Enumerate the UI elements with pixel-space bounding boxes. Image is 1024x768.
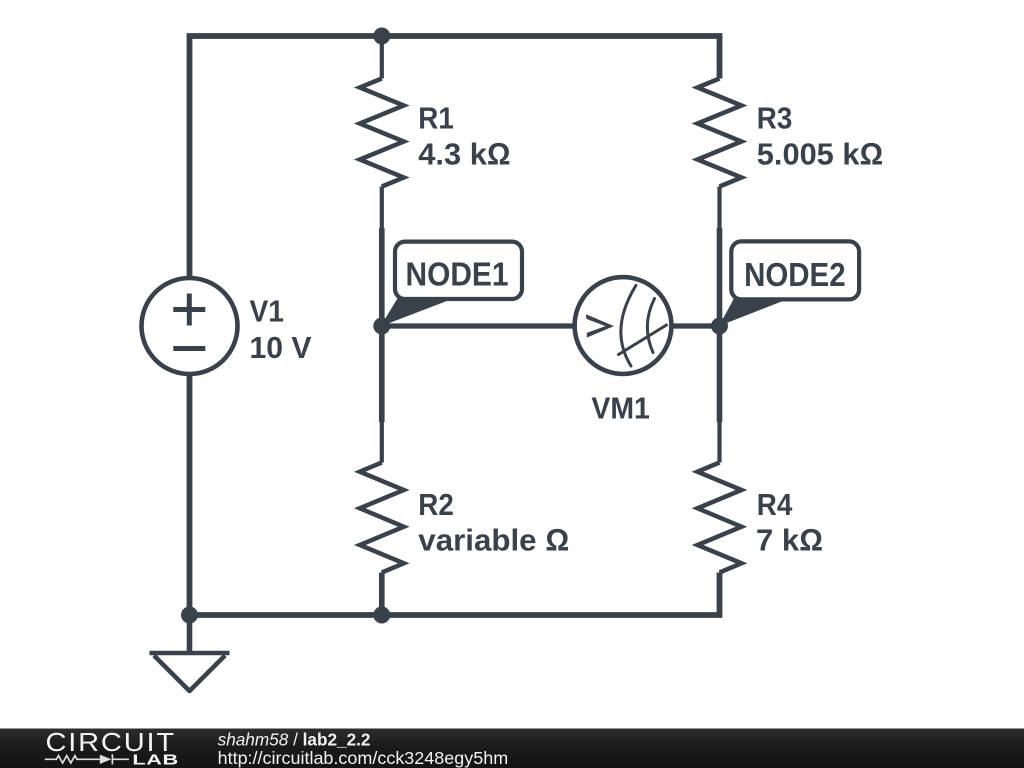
svg-text:7 kΩ: 7 kΩ xyxy=(756,523,823,558)
svg-text:R3: R3 xyxy=(757,101,793,136)
svg-text:4.3 kΩ: 4.3 kΩ xyxy=(418,136,510,171)
svg-text:NODE1: NODE1 xyxy=(406,257,509,294)
svg-text:10 V: 10 V xyxy=(250,330,312,365)
svg-text:R2: R2 xyxy=(418,487,454,522)
svg-text:V1: V1 xyxy=(250,294,285,329)
svg-text:5.005 kΩ: 5.005 kΩ xyxy=(757,136,883,171)
svg-text:R4: R4 xyxy=(757,487,793,522)
svg-text:shahm58 / lab2_2.2: shahm58 / lab2_2.2 xyxy=(218,730,371,750)
svg-text:variable Ω: variable Ω xyxy=(418,523,569,558)
svg-text:LAB: LAB xyxy=(132,751,178,768)
svg-text:VM1: VM1 xyxy=(591,391,650,426)
svg-text:NODE2: NODE2 xyxy=(744,257,846,294)
svg-text:R1: R1 xyxy=(418,101,454,136)
svg-text:http://circuitlab.com/cck3248e: http://circuitlab.com/cck3248egy5hm xyxy=(218,748,509,768)
